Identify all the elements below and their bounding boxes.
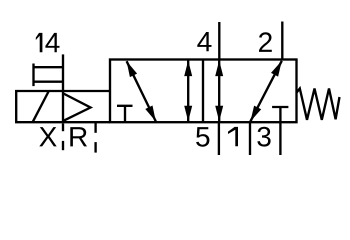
solenoid diagonal: [33, 91, 49, 122]
left square vertical flow arrow: [187, 60, 189, 121]
right square vertical flow arrow: [218, 60, 220, 121]
right square diagonal flow arrow: [250, 61, 281, 122]
pilot line X dash 2: [62, 141, 64, 150]
port 1 line: [249, 122, 251, 155]
pilot bracket bottom rail: [34, 81, 64, 83]
pilot triangle: [63, 94, 90, 121]
port 4 line: [218, 22, 220, 60]
return spring: [297, 89, 340, 120]
left square diagonal flow arrow: [127, 61, 156, 121]
right square blocked port T bar: [272, 106, 288, 108]
valve body outline: [110, 60, 297, 123]
label R: [70, 127, 87, 146]
label 2: [259, 32, 272, 52]
label 5: [196, 127, 209, 147]
label 3: [257, 127, 270, 147]
port 5 line: [218, 122, 220, 155]
label X: [39, 127, 56, 146]
pilot line R dash 2: [94, 142, 96, 153]
left square blocked port T bar: [117, 105, 133, 107]
pilot line X dash 1: [62, 124, 64, 132]
left square blocked port T stem: [124, 106, 126, 122]
solenoid box: [16, 91, 110, 122]
pilot port 14 bracket right bar: [62, 54, 64, 91]
label 4: [197, 32, 211, 51]
port 2 line: [281, 22, 283, 60]
port 3 line: [279, 122, 281, 155]
pilot line R dash 1: [94, 123, 96, 133]
label 14: [36, 33, 43, 52]
label 1: [228, 127, 238, 146]
valve position divider: [202, 60, 204, 123]
pilot bracket top rail: [34, 66, 64, 68]
pilot port 14 bracket left bar: [32, 64, 34, 87]
right square blocked port T stem: [279, 107, 281, 122]
solenoid box divider: [62, 91, 64, 122]
